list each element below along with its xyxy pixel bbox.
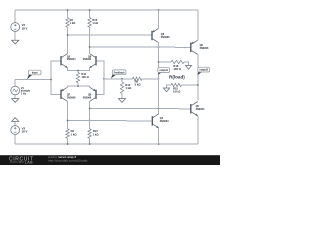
svg-text:2N3906: 2N3906 — [161, 36, 170, 39]
transistor Q8 — [95, 56, 97, 65]
wire — [159, 61, 172, 63]
resistor R13 — [88, 129, 91, 139]
junction — [89, 120, 91, 122]
svg-text:Feedback: Feedback — [114, 72, 125, 74]
wire — [14, 31, 16, 40]
svg-text:2N3904: 2N3904 — [196, 108, 205, 111]
junction — [197, 84, 199, 86]
junction — [121, 78, 123, 80]
wire — [14, 134, 16, 144]
svg-text:18 V: 18 V — [22, 130, 28, 134]
wire left base column — [51, 61, 61, 95]
resistor R3 — [66, 129, 69, 139]
svg-text:2N3906: 2N3906 — [67, 96, 76, 99]
wire — [89, 101, 91, 128]
svg-text:100 Ω: 100 Ω — [173, 67, 181, 71]
wire — [68, 119, 152, 122]
svg-text:1 kΩ: 1 kΩ — [92, 21, 98, 25]
resistor R8 — [133, 77, 143, 80]
transistor Q7 — [60, 90, 62, 99]
junction — [158, 61, 160, 63]
node flag output1 — [158, 71, 162, 75]
wire — [14, 10, 16, 23]
wire right base column — [96, 61, 104, 95]
junction — [103, 78, 105, 80]
svg-text:2N3904: 2N3904 — [67, 58, 76, 61]
wire — [104, 78, 133, 80]
wire — [77, 71, 79, 73]
wire — [197, 116, 199, 144]
ground below V1 — [12, 99, 19, 103]
svg-text:2N3904: 2N3904 — [160, 120, 169, 123]
ground right of R16 — [185, 66, 191, 70]
wire — [67, 101, 69, 128]
wire — [15, 9, 198, 11]
wire — [67, 138, 69, 144]
svg-text:1 kΩ: 1 kΩ — [71, 132, 78, 136]
wire — [89, 27, 91, 53]
junction — [158, 9, 160, 11]
wire — [67, 10, 69, 18]
node flag output2 — [197, 70, 202, 75]
node flag Input — [27, 73, 33, 79]
junction — [158, 46, 160, 48]
wire — [158, 43, 160, 114]
svg-text:18 V: 18 V — [22, 26, 28, 30]
ground below R12 — [118, 99, 125, 103]
wire top emitter rail — [68, 68, 90, 71]
junction — [89, 143, 91, 145]
resistor R15 — [167, 85, 172, 88]
wire — [90, 46, 191, 48]
svg-text:R(load): R(load) — [169, 74, 185, 79]
wire — [197, 10, 199, 40]
svg-text:5 kΩ: 5 kΩ — [135, 83, 142, 87]
wire — [68, 34, 152, 36]
junction — [158, 78, 160, 80]
junction — [89, 9, 91, 11]
ground below V2 — [12, 40, 19, 44]
junction — [67, 34, 69, 36]
junction — [158, 108, 160, 110]
wire — [142, 78, 159, 80]
svg-text:100 Ω: 100 Ω — [173, 90, 181, 94]
wire — [90, 107, 191, 109]
svg-text:1 Hz: 1 Hz — [21, 92, 27, 96]
svg-text:2N3904: 2N3904 — [83, 58, 92, 61]
svg-text:output2: output2 — [199, 69, 208, 72]
wire — [158, 10, 160, 28]
transistor Q5 — [190, 104, 192, 113]
wire — [182, 84, 198, 86]
wire — [15, 79, 51, 81]
svg-text:1 kΩ: 1 kΩ — [93, 132, 100, 136]
junction — [89, 108, 91, 110]
ground above V3 — [12, 118, 19, 122]
node flag Feedback — [111, 73, 117, 79]
wire — [14, 121, 16, 125]
svg-text:100 Ω: 100 Ω — [81, 75, 89, 79]
svg-text:http://circuitlab.com/c62cahjc: http://circuitlab.com/c62cahjc — [48, 159, 88, 163]
junction — [67, 120, 69, 122]
wire — [121, 79, 123, 82]
transistor Q6 — [190, 43, 192, 52]
junction — [67, 143, 69, 145]
junction — [67, 9, 69, 11]
wire — [14, 80, 16, 87]
wire — [67, 27, 69, 53]
svg-text:2N3906: 2N3906 — [200, 47, 209, 50]
transistor Q9 — [95, 90, 97, 99]
junction — [50, 79, 52, 81]
transistor Q2 — [60, 56, 62, 65]
wire — [121, 94, 123, 99]
junction — [77, 85, 79, 87]
wire — [158, 128, 160, 144]
voltage source V3 — [11, 126, 20, 135]
wire — [89, 138, 91, 144]
wire — [15, 143, 198, 145]
transistor Q3 — [151, 31, 153, 40]
ground left of R15 — [163, 88, 169, 92]
svg-text:1 kΩ: 1 kΩ — [125, 86, 132, 90]
svg-text:output1: output1 — [159, 69, 168, 72]
svg-text:Input: Input — [32, 72, 38, 75]
transistor Q4 — [151, 116, 153, 125]
svg-text:LAB: LAB — [25, 160, 33, 165]
wire — [77, 83, 79, 86]
junction — [77, 70, 79, 72]
junction — [89, 46, 91, 48]
junction — [158, 143, 160, 145]
wire — [14, 95, 16, 99]
wire bottom emitter rail — [68, 86, 90, 87]
footer bar — [0, 155, 220, 165]
svg-text:2N3906: 2N3906 — [83, 96, 92, 99]
wire — [197, 54, 199, 100]
wire — [89, 10, 91, 18]
svg-text:1 kΩ: 1 kΩ — [70, 21, 76, 25]
